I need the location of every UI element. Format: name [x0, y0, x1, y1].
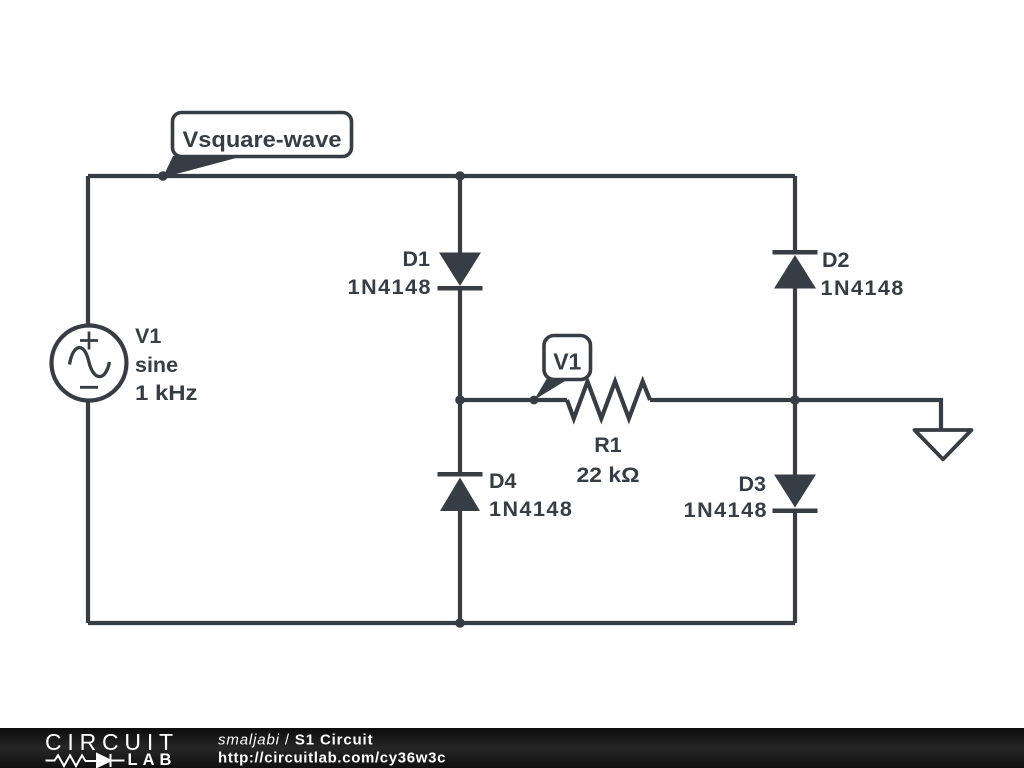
node: middle left junction: [455, 395, 465, 405]
svg-text:1 kHz: 1 kHz: [135, 381, 198, 405]
callout label Vsquare-wave: [163, 113, 352, 178]
svg-text:sine: sine: [135, 353, 178, 377]
footer bar: [0, 728, 1024, 768]
svg-text:R1: R1: [594, 433, 622, 457]
svg-text:V1: V1: [135, 324, 161, 348]
svg-text:smaljabi / S1 Circuit: smaljabi / S1 Circuit: [218, 732, 373, 749]
wire: top net from V1 to right branch: [88, 174, 795, 178]
ground symbol: [915, 430, 972, 459]
wire: D1 cathode to middle node: [458, 288, 462, 400]
voltage source V1: [52, 326, 127, 401]
wire: left vertical above V1 source: [86, 176, 90, 326]
svg-text:D2: D2: [822, 248, 850, 272]
wire: middle net from left node to resistor: [460, 398, 567, 402]
svg-text:V1: V1: [553, 349, 581, 375]
svg-text:http://circuitlab.com/cy36w3c: http://circuitlab.com/cy36w3c: [218, 750, 446, 767]
svg-text:Vsquare-wave: Vsquare-wave: [183, 127, 342, 152]
diode D2: [773, 252, 818, 288]
resistor R1: [567, 382, 650, 419]
wire: below D4 to bottom net: [458, 511, 462, 623]
node: top D1 junction: [455, 171, 465, 181]
node: Vsquare-wave net junction: [158, 171, 168, 181]
label V1 value: [135, 324, 198, 405]
node: middle right junction: [790, 395, 800, 405]
wire: right vertical below D3 to bottom: [793, 511, 797, 623]
diode D4: [438, 474, 483, 511]
wire: bottom net: [88, 621, 795, 625]
wire: left vertical below V1 source: [86, 400, 90, 623]
label D4: [489, 469, 573, 521]
label D3: [684, 472, 768, 522]
svg-text:1N4148: 1N4148: [348, 275, 432, 299]
logo resistor-diode glyph: [46, 754, 125, 767]
svg-text:1N4148: 1N4148: [489, 497, 573, 521]
svg-text:D4: D4: [489, 469, 517, 493]
wire: right vertical D2 to middle node: [793, 288, 797, 400]
wire: middle node to D4 cathode: [458, 400, 462, 475]
svg-text:22 kΩ: 22 kΩ: [577, 463, 640, 487]
svg-text:D3: D3: [739, 472, 767, 496]
diode D3: [773, 475, 818, 511]
label D1: [348, 247, 432, 299]
node: V1 probe junction: [530, 396, 539, 405]
wire: right vertical middle node to D3: [793, 400, 797, 475]
wire: right vertical top (to D2): [793, 176, 797, 253]
label D2: [821, 248, 905, 300]
svg-text:D1: D1: [403, 247, 431, 271]
svg-text:1N4148: 1N4148: [684, 498, 768, 522]
callout label V1 probe: [534, 336, 591, 401]
label R1: [577, 433, 640, 487]
svg-text:1N4148: 1N4148: [821, 276, 905, 300]
diode D1: [438, 253, 483, 289]
svg-text:LAB: LAB: [128, 751, 177, 768]
node: bottom D4 junction: [455, 618, 465, 628]
wire: D1 column top: [458, 176, 462, 253]
wire: resistor to right node and ground stub: [650, 400, 941, 430]
